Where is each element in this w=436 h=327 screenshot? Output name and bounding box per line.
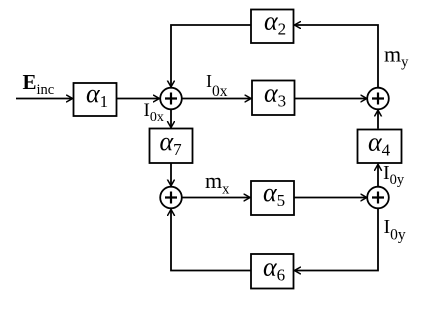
svg-text:mx: mx — [205, 168, 230, 198]
wire α5 to junction S4 — [294, 197, 367, 199]
gain block α1 — [74, 79, 117, 116]
wire S4 up into α4 (I0y) — [377, 164, 379, 186]
wire α6 left and up into S3 — [171, 209, 251, 270]
gain block α5 — [251, 178, 294, 215]
svg-text:I0y: I0y — [384, 216, 406, 244]
svg-text:my: my — [384, 42, 409, 71]
svg-text:I0x: I0x — [206, 71, 228, 100]
summing junction S2 — [367, 88, 389, 110]
wire S3 to α5 (m_x) — [182, 197, 250, 199]
wire input E_inc to α1 — [16, 98, 73, 100]
svg-text:Einc: Einc — [23, 70, 55, 98]
wire α3 to junction S2 — [295, 98, 367, 100]
wire α2 left and down into S1 — [171, 25, 251, 87]
gain block α2 — [251, 7, 294, 44]
gain block α6 — [251, 253, 294, 289]
summing junction S4 — [367, 187, 389, 209]
wire α4 up into S2 — [377, 110, 379, 128]
gain block α3 — [252, 79, 295, 116]
wire S2 up and left to α2 (m_y feedback) — [294, 25, 378, 87]
wire S4 down and left into α6 (I0y) — [294, 208, 378, 270]
wire S1 down into α7 — [170, 109, 172, 127]
wire S1 to α3 (I0x) — [182, 98, 251, 100]
gain block α7 — [150, 127, 193, 163]
svg-text:I0y: I0y — [383, 162, 405, 188]
summing junction S3 — [160, 187, 182, 209]
gain block α4 — [358, 128, 402, 164]
summing junction S1 — [160, 88, 182, 110]
wire S1col α7 down into S3 — [170, 163, 172, 186]
wire α1 to junction S1 — [117, 98, 160, 100]
